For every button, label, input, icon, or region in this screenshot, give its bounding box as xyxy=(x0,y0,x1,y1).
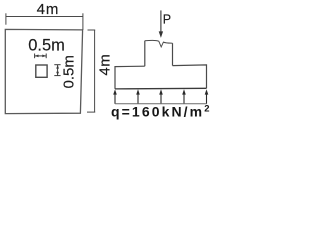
footing bottom edge xyxy=(115,87,207,90)
column height dimension line (0.5m) xyxy=(54,65,60,76)
column width dimension (0.5m) with end ticks and arrows xyxy=(35,54,47,59)
svg-text:q=160kN/m2: q=160kN/m2 xyxy=(111,103,212,119)
load arrow P (vertical, pointing down onto column) xyxy=(160,10,162,33)
svg-text:4m: 4m xyxy=(97,54,114,76)
svg-text:0.5m: 0.5m xyxy=(28,36,65,54)
top dimension line (4m) xyxy=(6,13,83,30)
footing plan outline (4m x 4m square) xyxy=(5,29,82,113)
footing section outline xyxy=(115,65,207,89)
svg-text:P: P xyxy=(163,13,171,27)
bottom reference line of pressure diagram xyxy=(115,103,207,105)
column outline (0.5m x 0.5m) xyxy=(36,65,47,77)
svg-text:4m: 4m xyxy=(37,1,60,18)
column break line (wavy top of column) xyxy=(145,40,173,47)
soil pressure arrows (upward) xyxy=(115,94,207,104)
column left edge (section) xyxy=(144,41,146,66)
svg-text:0.5m: 0.5m xyxy=(61,55,78,88)
column right edge (section) xyxy=(172,43,174,65)
right dimension line (4m, vertical) xyxy=(87,30,95,112)
